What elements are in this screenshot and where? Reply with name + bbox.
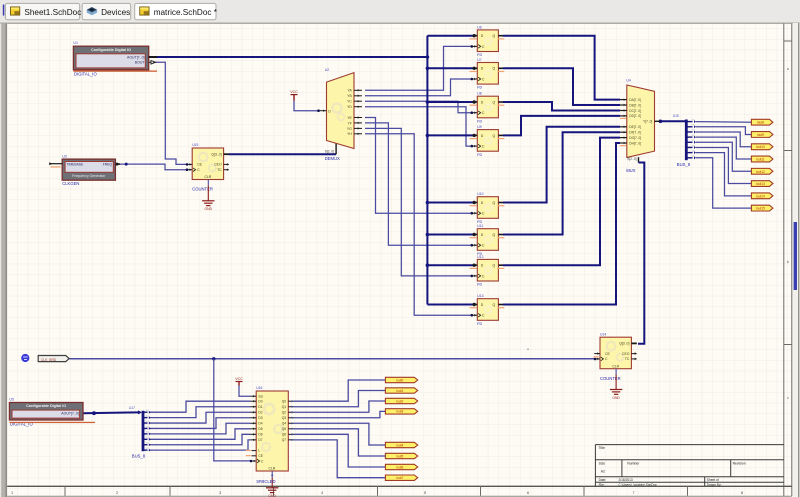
svg-text:DA[7..0]: DA[7..0] xyxy=(629,98,641,102)
svg-text:lout0: lout0 xyxy=(396,378,403,382)
svg-text:Q[3..0]: Q[3..0] xyxy=(211,152,221,156)
svg-text:b: b xyxy=(787,260,789,264)
svg-text:Devices: Devices xyxy=(101,8,130,17)
svg-text:4: 4 xyxy=(321,491,323,495)
svg-text:S[2..0]: S[2..0] xyxy=(627,157,636,161)
svg-text:S[2..0]: S[2..0] xyxy=(325,149,334,153)
svg-text:DIGITAL_IO: DIGITAL_IO xyxy=(74,71,97,76)
svg-text:5: 5 xyxy=(424,491,426,495)
svg-text:YC: YC xyxy=(347,100,352,104)
svg-text:Frequency Generator: Frequency Generator xyxy=(72,174,106,178)
svg-text:U1: U1 xyxy=(73,41,78,45)
svg-text:GND: GND xyxy=(205,207,213,211)
svg-text:BOUT: BOUT xyxy=(135,61,146,65)
svg-text:FD: FD xyxy=(477,119,482,123)
svg-text:Date:: Date: xyxy=(599,478,607,482)
svg-text:AOUT[7..0]: AOUT[7..0] xyxy=(127,55,145,59)
svg-text:Sheet of: Sheet of xyxy=(707,478,719,482)
svg-text:BUS_8: BUS_8 xyxy=(132,453,146,458)
svg-text:lout5: lout5 xyxy=(396,454,403,458)
svg-text:SLI: SLI xyxy=(258,394,263,398)
svg-text:matrice.SchDoc *: matrice.SchDoc * xyxy=(154,8,218,17)
svg-text:Title: Title xyxy=(599,446,605,450)
svg-text:CE: CE xyxy=(605,352,610,356)
svg-text:D7: D7 xyxy=(258,438,262,442)
svg-text:U2: U2 xyxy=(325,68,330,72)
svg-text:Revision: Revision xyxy=(733,462,746,466)
svg-text:Q: Q xyxy=(492,233,495,237)
svg-text:U16: U16 xyxy=(256,386,262,390)
svg-text:Q[3..0]: Q[3..0] xyxy=(619,342,629,346)
svg-text:Q: Q xyxy=(492,67,495,71)
svg-text:D4: D4 xyxy=(258,422,262,426)
svg-text:Q4: Q4 xyxy=(282,422,287,426)
svg-text:YE: YE xyxy=(347,116,352,120)
svg-text:Q0: Q0 xyxy=(282,400,287,404)
svg-text:CLR: CLR xyxy=(612,364,619,368)
svg-text:DB[7..0]: DB[7..0] xyxy=(629,103,641,107)
svg-text:FD: FD xyxy=(477,86,482,90)
svg-text:Sheet1.SchDoc: Sheet1.SchDoc xyxy=(24,8,81,17)
svg-text:CLK_BRD: CLK_BRD xyxy=(41,358,57,362)
svg-text:BUS_8: BUS_8 xyxy=(677,162,691,167)
svg-text:U5: U5 xyxy=(9,397,14,401)
svg-text:DF[7..0]: DF[7..0] xyxy=(629,131,640,135)
svg-text:Q3: Q3 xyxy=(282,416,287,420)
svg-text:VCC: VCC xyxy=(290,90,298,94)
svg-text:lout8: lout8 xyxy=(757,121,764,125)
svg-text:2: 2 xyxy=(116,491,118,495)
svg-text:Q5: Q5 xyxy=(282,427,287,431)
svg-text:U3: U3 xyxy=(62,155,67,159)
svg-text:CEO: CEO xyxy=(214,163,222,167)
svg-text:lout9: lout9 xyxy=(757,133,764,137)
svg-text:D1: D1 xyxy=(258,405,262,409)
svg-text:U14: U14 xyxy=(600,332,606,336)
svg-text:CLR: CLR xyxy=(205,175,212,179)
svg-text:U15: U15 xyxy=(673,114,679,118)
svg-text:MUX: MUX xyxy=(626,168,636,173)
svg-text:Q: Q xyxy=(492,201,495,205)
svg-text:Q: Q xyxy=(492,34,495,38)
svg-text:TIMEBASE: TIMEBASE xyxy=(67,162,84,166)
svg-text:lout10: lout10 xyxy=(756,145,765,149)
svg-text:FREQ: FREQ xyxy=(103,162,113,166)
svg-text:Number: Number xyxy=(627,462,640,466)
svg-text:CE: CE xyxy=(258,454,263,458)
svg-text:lout11: lout11 xyxy=(756,158,765,162)
svg-text:COUNTER: COUNTER xyxy=(192,187,213,192)
svg-text:L: L xyxy=(258,449,260,453)
svg-text:8: 8 xyxy=(741,491,743,495)
svg-text:6: 6 xyxy=(527,491,529,495)
svg-text:Q6: Q6 xyxy=(282,433,287,437)
svg-text:CLKGEN: CLKGEN xyxy=(62,181,79,186)
svg-text:TC: TC xyxy=(625,357,630,361)
svg-text:DG[7..0]: DG[7..0] xyxy=(629,136,641,140)
svg-text:lout14: lout14 xyxy=(756,194,765,198)
svg-text:GND: GND xyxy=(612,396,620,400)
svg-text:YB: YB xyxy=(347,94,352,98)
svg-text:3: 3 xyxy=(219,491,221,495)
svg-text:C:\Users\..\matrice.SchDoc: C:\Users\..\matrice.SchDoc xyxy=(619,483,658,487)
svg-text:YA: YA xyxy=(348,89,353,93)
svg-text:Q7: Q7 xyxy=(282,438,287,442)
svg-text:U11: U11 xyxy=(477,224,483,228)
svg-text:FD: FD xyxy=(477,283,482,287)
svg-text:SR8CLED: SR8CLED xyxy=(256,479,275,484)
svg-text:CLR: CLR xyxy=(269,466,276,470)
svg-text:a: a xyxy=(787,67,789,71)
svg-text:U17: U17 xyxy=(129,406,135,410)
svg-text:YG: YG xyxy=(347,127,352,131)
svg-text:U12: U12 xyxy=(477,255,483,259)
svg-text:Q: Q xyxy=(492,264,495,268)
svg-text:Y[7..0]: Y[7..0] xyxy=(643,120,652,124)
svg-text:FD: FD xyxy=(477,53,482,57)
svg-text:lout15: lout15 xyxy=(756,207,765,211)
svg-text:DD[7..0]: DD[7..0] xyxy=(629,114,641,118)
svg-text:U19: U19 xyxy=(192,143,198,147)
svg-text:Drawn By:: Drawn By: xyxy=(707,483,722,487)
svg-text:U13: U13 xyxy=(477,294,483,298)
svg-text:7: 7 xyxy=(632,491,634,495)
svg-text:1: 1 xyxy=(11,491,13,495)
svg-text:U7: U7 xyxy=(477,58,481,62)
svg-text:Configurable Digital IO: Configurable Digital IO xyxy=(26,404,66,408)
svg-text:U8: U8 xyxy=(477,92,481,96)
svg-text:CE: CE xyxy=(197,163,202,167)
svg-text:YF: YF xyxy=(347,121,351,125)
svg-text:File:: File: xyxy=(599,483,605,487)
svg-text:TC: TC xyxy=(217,168,222,172)
svg-text:lout7: lout7 xyxy=(396,476,403,480)
svg-text:FD: FD xyxy=(477,322,482,326)
svg-text:FD: FD xyxy=(477,153,482,157)
svg-text:D0: D0 xyxy=(258,400,262,404)
svg-text:Q2: Q2 xyxy=(282,411,287,415)
svg-text:Configurable Digital IO: Configurable Digital IO xyxy=(91,48,131,52)
svg-text:c: c xyxy=(787,396,789,400)
svg-text:U10: U10 xyxy=(477,192,483,196)
svg-text:D2: D2 xyxy=(258,411,262,415)
svg-text:U9: U9 xyxy=(477,125,481,129)
svg-text:DH[7..0]: DH[7..0] xyxy=(629,141,641,145)
svg-text:lout13: lout13 xyxy=(756,182,765,186)
svg-text:D3: D3 xyxy=(258,416,262,420)
svg-text:lout2: lout2 xyxy=(396,399,403,403)
svg-text:AOUT[7..0]: AOUT[7..0] xyxy=(61,412,79,416)
svg-text:lout3: lout3 xyxy=(396,410,403,414)
svg-text:lout6: lout6 xyxy=(396,465,403,469)
svg-text:lout1: lout1 xyxy=(396,389,403,393)
svg-text:D5: D5 xyxy=(258,427,262,431)
svg-text:U6: U6 xyxy=(477,25,481,29)
svg-text:YD: YD xyxy=(347,105,352,109)
svg-text:CEO: CEO xyxy=(622,352,630,356)
svg-text:lout12: lout12 xyxy=(756,170,765,174)
svg-text:2/18/2013: 2/18/2013 xyxy=(619,478,633,482)
svg-text:YH: YH xyxy=(347,132,352,136)
svg-text:DEMUX: DEMUX xyxy=(325,156,340,161)
svg-text:COUNTER: COUNTER xyxy=(600,376,621,381)
svg-text:D6: D6 xyxy=(258,433,262,437)
svg-text:VCC: VCC xyxy=(235,377,243,381)
svg-text:Q: Q xyxy=(492,303,495,307)
svg-text:U4: U4 xyxy=(626,79,631,83)
svg-text:Q: Q xyxy=(492,100,495,104)
svg-text:DE[7..0]: DE[7..0] xyxy=(629,125,641,129)
svg-text:Q: Q xyxy=(492,134,495,138)
svg-text:D: D xyxy=(328,110,331,114)
svg-text:DC[7..0]: DC[7..0] xyxy=(629,109,641,113)
svg-text:Q1: Q1 xyxy=(282,405,287,409)
svg-text:Size: Size xyxy=(599,462,606,466)
svg-text:A2: A2 xyxy=(601,470,605,474)
svg-text:lout4: lout4 xyxy=(396,443,403,447)
